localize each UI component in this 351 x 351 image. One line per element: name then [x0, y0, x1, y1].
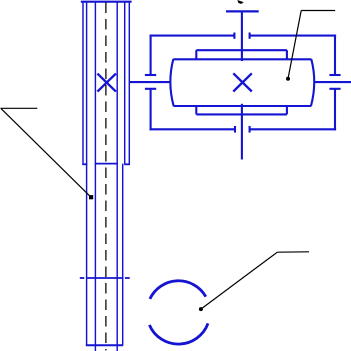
lower crossbar left tick: [80, 277, 85, 279]
frame right vertical upper: [334, 35, 336, 75]
leader line to worm circle horizontal: [277, 251, 309, 253]
wheel hub bottom tick left: [195, 106, 197, 115]
wheel vertical shaft upper: [241, 11, 243, 61]
bearing X at wheel center stroke 1: [233, 73, 252, 91]
worm shaft housing line right B upper: [124, 2, 126, 165]
bearing X on worm shaft stroke 2: [97, 74, 116, 92]
wheel body bottom edge: [174, 105, 311, 107]
wheel body right concave edge: [311, 59, 314, 106]
wheel hub top tick left: [195, 50, 197, 59]
frame left vertical lower: [150, 89, 152, 131]
worm shaft core line right C: [116, 2, 118, 351]
leader dot on worm shaft: [89, 195, 93, 199]
frame top tick right: [249, 33, 251, 39]
leader line to wheel horizontal: [301, 10, 335, 12]
leader line to worm shaft horizontal: [1, 107, 38, 109]
shaft bottom cap: [86, 344, 123, 346]
frame bottom tick right: [249, 126, 251, 133]
shoulder foot left A-B: [82, 163, 87, 165]
bearing X at wheel center stroke 2: [233, 73, 252, 91]
shoulder foot right B-A: [124, 163, 130, 165]
leader dot on worm circle: [199, 307, 203, 311]
frame left vertical upper: [150, 35, 152, 75]
frame top tick left: [233, 33, 235, 39]
worm circle top arc: [150, 281, 206, 299]
right bearing lower bar: [329, 88, 340, 90]
lower crossbar main: [86, 277, 123, 279]
worm shaft housing line left B: [86, 2, 88, 346]
worm circle bottom arc: [149, 323, 208, 344]
wheel shaft axis right: [314, 81, 351, 83]
wheel vertical shaft end T-bar: [226, 10, 259, 12]
gear housing frame top left segment: [150, 35, 235, 37]
right bearing upper bar: [329, 74, 340, 76]
worm shaft housing outer line right A: [128, 2, 130, 165]
leader dot on wheel: [286, 77, 290, 81]
leader line to worm circle diagonal: [201, 252, 277, 309]
worm shaft dashed centerline: [105, 3, 107, 351]
frame right vertical lower: [334, 89, 336, 131]
worm shaft housing outer line left A: [82, 2, 84, 165]
worm shaft line right D lower: [122, 164, 124, 346]
wheel vertical shaft lower: [241, 104, 243, 160]
left bearing upper bar: [145, 74, 156, 76]
wheel body left concave edge: [170, 59, 173, 106]
leader line to wheel diagonal: [288, 11, 301, 79]
gear housing frame bottom right segment: [250, 128, 337, 130]
wheel shaft axis left: [129, 81, 171, 83]
shaft shoulder crossbar: [95, 163, 118, 165]
worm shaft core line left C: [94, 2, 96, 351]
wheel hub top tick right: [286, 50, 288, 59]
frame bottom tick left: [234, 126, 236, 133]
gear housing frame top right segment: [250, 35, 337, 37]
wheel body top edge: [173, 58, 311, 60]
bearing X on worm shaft stroke 1: [97, 74, 116, 92]
gear housing frame bottom left segment: [150, 128, 236, 130]
cursor arrow at wheel shaft top: [237, 0, 244, 4]
worm shaft top cap: [81, 1, 132, 3]
wheel hub top line: [196, 49, 287, 51]
leader line to worm shaft diagonal: [1, 108, 91, 197]
lower crossbar right tick: [125, 277, 130, 279]
left bearing lower bar: [145, 88, 156, 90]
wheel hub bottom tick right: [286, 106, 288, 115]
wheel hub bottom line: [196, 113, 287, 115]
